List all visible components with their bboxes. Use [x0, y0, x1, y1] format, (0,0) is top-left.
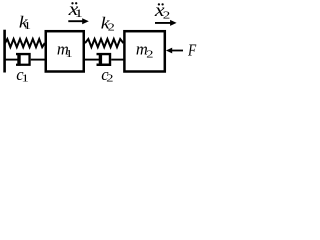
- svg-text:F: F: [187, 41, 197, 60]
- mass m1: [46, 31, 84, 71]
- spring k1: [5, 39, 45, 47]
- svg-text:2: 2: [146, 49, 153, 60]
- damper c1 cylinder (open left): [16, 54, 30, 65]
- svg-text:2: 2: [163, 9, 171, 21]
- damper c2 piston plate: [99, 53, 102, 66]
- svg-text:1: 1: [65, 49, 72, 60]
- acceleration label x1dd: [67, 0, 83, 20]
- label k2: [101, 14, 115, 34]
- wire damper c1 to mass m1: [31, 59, 45, 61]
- wall: [3, 30, 6, 73]
- label c1: [16, 65, 29, 85]
- svg-text:1: 1: [75, 8, 83, 20]
- spring k2: [85, 39, 123, 47]
- svg-text:2: 2: [106, 74, 113, 85]
- label m1: [57, 40, 73, 61]
- svg-text:2: 2: [108, 22, 115, 33]
- label m2: [136, 40, 154, 61]
- mass m2: [124, 31, 164, 71]
- svg-text:1: 1: [22, 74, 29, 85]
- wire mass m1 to damper c2: [85, 59, 99, 61]
- label c2: [101, 65, 113, 85]
- acceleration arrow x1dd: [68, 18, 89, 24]
- acceleration arrow x2dd: [155, 20, 177, 26]
- damper c1 piston plate: [17, 53, 20, 66]
- wire damper c2 to mass m2: [111, 59, 124, 61]
- damper c2 cylinder (open left): [97, 54, 111, 65]
- wire wall to damper c1: [5, 59, 18, 61]
- svg-text:1: 1: [24, 21, 31, 32]
- force F arrow: [166, 48, 183, 54]
- label k1: [19, 13, 31, 32]
- acceleration label x2dd: [154, 0, 171, 21]
